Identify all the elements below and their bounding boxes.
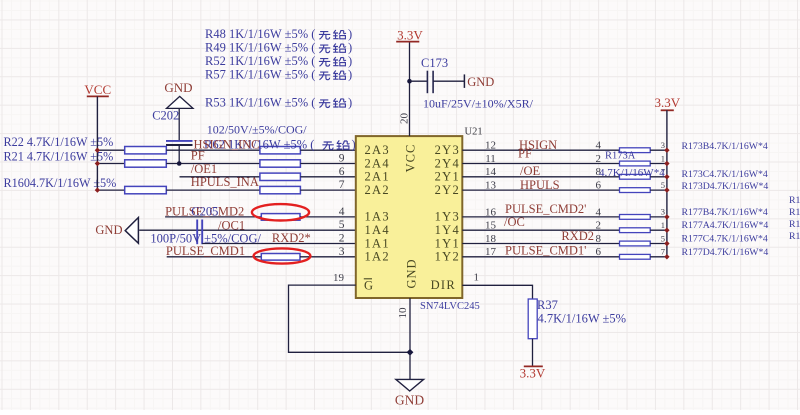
svg-text:6: 6 (339, 166, 345, 178)
svg-text:8: 8 (596, 233, 602, 245)
svg-text:PF: PF (518, 147, 532, 161)
svg-text:11: 11 (485, 153, 496, 165)
svg-text:/OE1: /OE1 (191, 162, 217, 176)
svg-text:C173: C173 (421, 56, 448, 70)
svg-text:16: 16 (485, 206, 497, 218)
svg-text:R48 1K/1/16W ±5% (: R48 1K/1/16W ±5% ( (205, 27, 315, 41)
svg-text:/OE: /OE (520, 164, 541, 178)
svg-text:1Y2: 1Y2 (435, 250, 460, 264)
svg-text:2A3: 2A3 (365, 143, 390, 157)
svg-text:PULSE_CMD2': PULSE_CMD2' (505, 202, 586, 216)
svg-text:R49 1K/1/16W ±5% (: R49 1K/1/16W ±5% ( (205, 41, 315, 55)
svg-text:2Y2: 2Y2 (435, 183, 460, 197)
svg-text:3: 3 (661, 207, 665, 217)
svg-text:U21: U21 (465, 127, 483, 138)
svg-text:R173A: R173A (605, 151, 636, 162)
svg-text:9: 9 (339, 153, 345, 165)
svg-text:C202: C202 (152, 108, 179, 122)
svg-text:1A3: 1A3 (365, 210, 390, 224)
svg-text:GND: GND (164, 80, 192, 95)
svg-text:2: 2 (339, 233, 345, 245)
svg-text:R173B4.7K/1/16W*4: R173B4.7K/1/16W*4 (682, 141, 768, 152)
svg-text:10uF/25V/±10%/X5R/: 10uF/25V/±10%/X5R/ (423, 97, 534, 111)
svg-text:1Y1: 1Y1 (435, 236, 460, 250)
svg-text:RXD2: RXD2 (561, 229, 594, 243)
svg-text:SN74LVC245: SN74LVC245 (420, 301, 480, 312)
svg-text:PULSE_CMD1: PULSE_CMD1 (166, 244, 245, 258)
svg-text:102/50V/±5%/COG/: 102/50V/±5%/COG/ (207, 123, 308, 137)
svg-text:2Y4: 2Y4 (435, 156, 460, 170)
svg-text:4: 4 (339, 206, 345, 218)
svg-text:3.3V: 3.3V (654, 95, 680, 110)
svg-text:19: 19 (333, 272, 345, 284)
svg-text:PF: PF (191, 149, 205, 163)
svg-text:R1604.7K/1/16W ±5%: R1604.7K/1/16W ±5% (4, 176, 117, 190)
svg-text:): ) (348, 41, 352, 55)
svg-text:2: 2 (596, 220, 602, 232)
svg-text:R177D4.7K/1/16W*4: R177D4.7K/1/16W*4 (682, 247, 769, 258)
svg-text:10: 10 (397, 307, 409, 319)
svg-text:7: 7 (339, 179, 345, 191)
svg-text:PULSE_CMD1': PULSE_CMD1' (505, 244, 586, 258)
svg-text:5: 5 (661, 233, 665, 243)
svg-text:R177B4.7K/1/16W*4: R177B4.7K/1/16W*4 (682, 207, 768, 218)
svg-text:3.3V: 3.3V (520, 365, 546, 380)
svg-text:R17: R17 (789, 219, 800, 230)
svg-text:): ) (348, 68, 352, 82)
svg-text:17: 17 (485, 246, 497, 258)
svg-text:1Y4: 1Y4 (435, 223, 460, 237)
svg-text:R177C4.7K/1/16W*4: R177C4.7K/1/16W*4 (682, 234, 768, 245)
svg-text:R57 1K/1/16W ±5% (: R57 1K/1/16W ±5% ( (205, 68, 315, 82)
svg-text:15: 15 (485, 220, 497, 232)
svg-text:R17: R17 (789, 231, 800, 242)
svg-text:VCC: VCC (84, 82, 111, 97)
svg-text:DIR: DIR (431, 278, 456, 292)
svg-text:1: 1 (661, 153, 665, 163)
svg-text:18: 18 (485, 233, 497, 245)
svg-text:12: 12 (485, 140, 496, 152)
svg-text:4: 4 (596, 140, 602, 152)
svg-text:20: 20 (398, 113, 410, 125)
svg-text:2Y1: 2Y1 (435, 170, 460, 184)
svg-text:6: 6 (596, 180, 602, 192)
svg-text:1Y3: 1Y3 (435, 210, 460, 224)
svg-text:1: 1 (661, 220, 665, 230)
svg-text:R37: R37 (537, 298, 558, 312)
svg-text:/OC1: /OC1 (218, 219, 245, 233)
svg-text:R53 1K/1/16W ±5% (: R53 1K/1/16W ±5% ( (205, 96, 315, 110)
svg-text:GND: GND (395, 392, 424, 407)
svg-text:7: 7 (661, 247, 665, 257)
svg-text:4.7K/1/16W ±5%: 4.7K/1/16W ±5% (538, 312, 627, 326)
svg-text:R17: R17 (789, 195, 800, 206)
svg-text:): ) (348, 27, 352, 41)
svg-text:5: 5 (339, 219, 345, 231)
svg-text:R17: R17 (789, 207, 800, 218)
svg-text:RXD2*: RXD2* (272, 231, 311, 245)
svg-text:3: 3 (661, 140, 665, 150)
svg-text:14: 14 (485, 166, 497, 178)
svg-text:1A2: 1A2 (365, 250, 390, 264)
svg-text:GND: GND (467, 75, 494, 89)
svg-text:R173D4.7K/1/16W*4: R173D4.7K/1/16W*4 (682, 181, 769, 192)
svg-text:R52 1K/1/16W ±5% (: R52 1K/1/16W ±5% ( (205, 54, 315, 68)
svg-text:2: 2 (596, 153, 602, 165)
svg-text:6: 6 (596, 246, 602, 258)
svg-text:3.3V: 3.3V (397, 28, 423, 43)
svg-text:/OC: /OC (504, 215, 525, 229)
svg-text:G: G (364, 279, 373, 293)
svg-text:R173C4.7K/1/16W*4: R173C4.7K/1/16W*4 (682, 169, 768, 180)
svg-text:1: 1 (474, 272, 480, 284)
svg-text:2A2: 2A2 (365, 183, 390, 197)
svg-text:2Y3: 2Y3 (435, 143, 460, 157)
svg-text:R177A4.7K/1/16W*4: R177A4.7K/1/16W*4 (682, 220, 769, 231)
svg-text:GND: GND (405, 258, 419, 288)
svg-text:HPULS: HPULS (520, 178, 560, 192)
svg-text:): ) (348, 54, 352, 68)
svg-text:13: 13 (485, 180, 497, 192)
svg-text:2A1: 2A1 (365, 170, 390, 184)
svg-text:5: 5 (661, 180, 665, 190)
svg-text:1A4: 1A4 (365, 223, 390, 237)
svg-text:3: 3 (339, 246, 345, 258)
svg-text:): ) (348, 96, 352, 110)
svg-text:2A4: 2A4 (365, 156, 390, 170)
svg-text:C205: C205 (191, 204, 218, 218)
svg-text:HPULS_INA: HPULS_INA (191, 175, 259, 189)
svg-text:GND: GND (95, 223, 122, 237)
svg-text:VCC: VCC (404, 144, 418, 173)
svg-text:4.7K/1/16W*4: 4.7K/1/16W*4 (599, 167, 665, 179)
svg-text:4: 4 (596, 206, 602, 218)
svg-text:1A1: 1A1 (365, 236, 390, 250)
